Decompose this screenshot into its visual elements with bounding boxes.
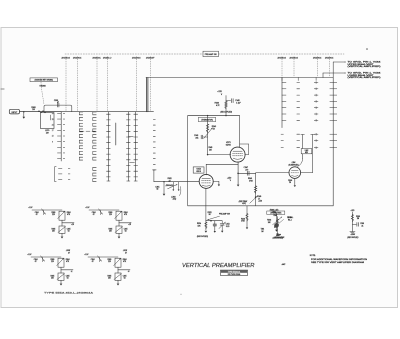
svg-text:2N3904: 2N3904 xyxy=(61,57,70,59)
pentode V353 6DK6 xyxy=(199,174,213,188)
svg-text:90: 90 xyxy=(209,214,211,216)
switch wafer dropper 2N3904 (dashed wire) xyxy=(136,57,138,111)
svg-text:220: 220 xyxy=(51,261,54,263)
delay line second half left rail xyxy=(281,78,283,128)
svg-text:NOTE:: NOTE: xyxy=(310,255,316,257)
neon lamp B386 xyxy=(274,223,279,228)
capacitor C361 to ground xyxy=(163,181,164,182)
node grid junction xyxy=(207,154,209,156)
shield box left edge xyxy=(187,116,189,206)
edge mark xyxy=(1,88,4,90)
ground V353 beam plates xyxy=(213,180,219,182)
ground at input xyxy=(23,112,25,117)
wire collector bus Q321 xyxy=(31,256,61,258)
triode V363 xyxy=(289,167,301,179)
title block box xyxy=(220,270,247,275)
svg-text:PRE-AMP SW: PRE-AMP SW xyxy=(205,53,217,56)
wire cathode node xyxy=(206,220,222,222)
ground decoupler xyxy=(350,231,355,233)
svg-text:2N3904: 2N3904 xyxy=(325,57,334,59)
svg-text:2N3904F: 2N3904F xyxy=(146,57,155,59)
svg-text:62: 62 xyxy=(125,231,127,233)
output arrow to lower beam amplifier xyxy=(323,72,345,74)
wire V363 grid feed xyxy=(256,172,289,174)
wire interconnect top xyxy=(146,77,333,79)
node plate feed xyxy=(188,115,240,117)
wire emitter node Q331 xyxy=(117,267,119,273)
wire V353 cathode xyxy=(205,188,207,220)
svg-text:220: 220 xyxy=(108,261,111,263)
svg-text:47: 47 xyxy=(125,252,127,255)
svg-text:555 THRU R999: 555 THRU R999 xyxy=(228,274,241,276)
delay line rail stubs xyxy=(281,78,283,81)
svg-text:2N3904: 2N3904 xyxy=(277,57,286,59)
svg-text:47: 47 xyxy=(68,252,70,255)
svg-text:47: 47 xyxy=(169,180,171,182)
svg-text:R305: R305 xyxy=(108,228,112,230)
node input junction xyxy=(23,111,25,113)
capacitor C388 xyxy=(352,223,356,225)
wire contact column to grid line xyxy=(152,169,156,171)
wire neon feed xyxy=(276,213,278,223)
resistor R343 thermistor xyxy=(207,116,209,155)
wire collector bus Q331 xyxy=(88,256,118,258)
svg-text:2N3904: 2N3904 xyxy=(289,57,298,59)
switch wafer dropper 2N3904 (dashed wire) xyxy=(329,57,331,78)
delay line rail column 4 xyxy=(107,112,109,181)
svg-text:R303: R303 xyxy=(108,212,112,214)
diode Q331 xyxy=(98,256,102,261)
svg-text:82: 82 xyxy=(156,189,158,191)
resistor emitter Q321 xyxy=(58,273,64,280)
svg-text:R347: R347 xyxy=(273,215,277,217)
svg-text:(VERTICAL AMPLIFIER): (VERTICAL AMPLIFIER) xyxy=(348,76,382,79)
svg-text:62: 62 xyxy=(67,278,69,280)
svg-text:5-25: 5-25 xyxy=(226,226,229,228)
wire V363 plate to rail xyxy=(301,172,313,174)
diode Q311 xyxy=(99,209,103,214)
delay line second half right rail xyxy=(332,78,334,206)
speck xyxy=(366,48,368,50)
svg-text:62: 62 xyxy=(124,278,126,280)
resistor R349 peaking xyxy=(255,173,257,206)
resistor R354 xyxy=(205,221,207,230)
svg-text:9: 9 xyxy=(52,141,53,143)
svg-text:(L363: (L363 xyxy=(171,196,175,198)
resistor R388 xyxy=(351,212,353,231)
diode Q321 xyxy=(41,256,45,261)
node output junction xyxy=(237,173,239,175)
svg-text:PRE-AMP SW: PRE-AMP SW xyxy=(219,213,230,216)
svg-text:INPUT: INPUT xyxy=(12,112,19,114)
svg-text:VERTICAL PREAMPLIFIER: VERTICAL PREAMPLIFIER xyxy=(182,263,255,269)
svg-text:C304: C304 xyxy=(35,212,39,214)
coil L362 termination xyxy=(302,135,304,159)
wire to V373 plate xyxy=(239,116,241,148)
svg-text:(DECOUPLED): (DECOUPLED) xyxy=(220,112,232,114)
svg-text:B386: B386 xyxy=(288,217,292,219)
svg-text:C304: C304 xyxy=(91,259,95,261)
svg-text:V353: V353 xyxy=(196,169,200,171)
resistor R346 xyxy=(225,101,228,108)
capacitor C353 electrolytic xyxy=(214,221,216,224)
transistor Q331 xyxy=(115,258,121,267)
svg-text:R304: R304 xyxy=(66,259,70,261)
wire shield pair xyxy=(145,78,147,112)
delay line switch contact dots xyxy=(153,119,155,121)
svg-text:+225: +225 xyxy=(350,210,354,212)
svg-text:R349: R349 xyxy=(248,178,252,180)
switch wafer dropper 2N3904F (dashed wire) xyxy=(150,57,152,111)
node cathode junction xyxy=(210,220,212,222)
svg-text:6DK6: 6DK6 xyxy=(196,171,201,173)
svg-text:R304: R304 xyxy=(124,212,128,214)
wire thermistor to V373 grid xyxy=(208,154,231,156)
svg-text:+10: +10 xyxy=(71,224,74,226)
svg-text:R305: R305 xyxy=(107,275,111,277)
resistor emitter Q311 xyxy=(116,226,122,233)
svg-text:2N3904: 2N3904 xyxy=(313,57,322,59)
svg-text:C388: C388 xyxy=(360,223,364,225)
capacitor C368 bypass loop xyxy=(44,105,72,112)
svg-text:T344: T344 xyxy=(261,229,265,231)
switch wafer dropper 2N3904 (dashed wire) xyxy=(293,57,295,78)
svg-text:.001: .001 xyxy=(195,138,198,140)
capacitor stubs to ground xyxy=(172,182,174,190)
shield box bottom edge xyxy=(188,205,334,207)
svg-text:(R386 2.2K): (R386 2.2K) xyxy=(270,209,279,211)
ground Q321 xyxy=(60,280,62,283)
svg-text:R305: R305 xyxy=(50,275,54,277)
svg-text:220: 220 xyxy=(109,214,112,216)
delay line LC column 2 xyxy=(79,111,82,113)
diode Q301 xyxy=(42,209,46,214)
svg-text:21: 21 xyxy=(52,124,54,126)
wire plate supply xyxy=(225,96,227,116)
svg-text:2N3904C: 2N3904C xyxy=(92,57,102,59)
svg-text:47: 47 xyxy=(92,261,94,263)
wire input xyxy=(20,111,62,113)
label box V353 xyxy=(193,167,204,173)
svg-text:.01: .01 xyxy=(361,225,363,227)
ganged-with label box xyxy=(30,78,58,82)
svg-text:2N3904: 2N3904 xyxy=(73,57,82,59)
delay line second half column 3 xyxy=(314,82,318,84)
capacitor C343 xyxy=(203,136,207,138)
wire V373 screen loop xyxy=(245,154,249,156)
svg-text:(DECOUPLED): (DECOUPLED) xyxy=(347,237,358,239)
svg-text:4.7µF: 4.7µF xyxy=(236,103,240,105)
wire V353 grid input xyxy=(154,181,199,183)
capacitor C347 xyxy=(246,171,248,175)
delay line rail column 5 xyxy=(127,112,129,181)
svg-text:+10: +10 xyxy=(128,224,131,226)
svg-text:R304: R304 xyxy=(123,259,127,261)
svg-text:C304: C304 xyxy=(34,259,38,261)
delay line LC column 3 xyxy=(93,111,96,113)
svg-text:SW360: SW360 xyxy=(39,86,45,88)
ground Q311 xyxy=(118,233,120,236)
pentode V373 6DK6 xyxy=(230,147,245,162)
capacitor C345 decoupling xyxy=(226,100,231,102)
svg-text:47: 47 xyxy=(57,102,59,104)
svg-text:C305: C305 xyxy=(124,228,128,230)
wire collector bus Q311 xyxy=(89,209,119,211)
delay line left rail bottom bracket xyxy=(55,167,57,182)
svg-text:R388: R388 xyxy=(356,216,360,218)
switch wafer dropper 2N3904 (dashed wire) xyxy=(65,57,67,111)
input terminal xyxy=(9,109,19,114)
svg-text:R348: R348 xyxy=(241,218,245,220)
svg-text:R303: R303 xyxy=(51,212,55,214)
thermistor R347 label box xyxy=(267,211,285,214)
svg-text:6DK6: 6DK6 xyxy=(226,145,232,147)
svg-text:+150: +150 xyxy=(258,200,262,202)
svg-text:220: 220 xyxy=(52,214,55,216)
svg-text:25: 25 xyxy=(52,119,54,121)
svg-text:(VERTICAL AMPLIFIER): (VERTICAL AMPLIFIER) xyxy=(348,65,382,68)
output arrow to upper beam amplifier xyxy=(333,61,345,63)
potentiometer R347 dc bal xyxy=(277,217,279,233)
svg-text:C305: C305 xyxy=(66,275,70,277)
resistor emitter Q301 xyxy=(59,226,65,233)
svg-text:(M-DERIVED): (M-DERIVED) xyxy=(288,164,298,166)
svg-text:SEE TYPE 555 VERT AMPLIFIER DI: SEE TYPE 555 VERT AMPLIFIER DIAGRAM xyxy=(311,261,365,264)
svg-text:C349: C349 xyxy=(257,196,261,198)
trimmer capacitor C352 xyxy=(221,221,223,224)
delay line coupling row B xyxy=(129,136,133,138)
svg-text:L362: L362 xyxy=(305,150,309,152)
svg-text:+1: +1 xyxy=(71,271,73,273)
ground neon xyxy=(276,228,278,230)
svg-text:R366: R366 xyxy=(288,180,292,182)
svg-text:C304: C304 xyxy=(92,212,96,214)
ground Q331 xyxy=(117,280,119,283)
svg-text:17: 17 xyxy=(52,130,54,132)
transistor Q301 xyxy=(59,211,65,220)
delay line rail column 6 xyxy=(135,112,137,181)
svg-text:13: 13 xyxy=(52,136,54,138)
wire emitter node Q321 xyxy=(60,267,62,273)
potentiometer R360 adjust xyxy=(168,184,178,188)
node peaking junction xyxy=(255,196,257,198)
svg-text:TYPE 555A/21A: TYPE 555A/21A xyxy=(228,270,241,273)
delay line second half column 2 xyxy=(297,82,300,84)
svg-text:47: 47 xyxy=(35,261,37,263)
svg-text:(DECOUPLED): (DECOUPLED) xyxy=(197,236,208,238)
switch wafer dropper 2N39LO (dashed wire) xyxy=(107,57,109,111)
wire emitter node Q311 xyxy=(118,220,120,226)
delay line left rail with taps xyxy=(60,112,62,161)
svg-text:R304: R304 xyxy=(67,212,71,214)
svg-text:+5: +5 xyxy=(128,271,130,273)
resistor emitter Q331 xyxy=(115,273,121,280)
svg-text:R303: R303 xyxy=(107,259,111,261)
svg-text:(THERMISTOR): (THERMISTOR) xyxy=(201,119,213,121)
resistor R366 cathode xyxy=(294,178,296,184)
node dc bal junction xyxy=(274,226,276,228)
transistor Q321 xyxy=(58,258,64,267)
switch wafer dropper 2N3904 (dashed wire) xyxy=(77,57,79,111)
svg-text:C305: C305 xyxy=(123,275,127,277)
svg-text:C305: C305 xyxy=(67,228,71,230)
shield box top stub xyxy=(188,115,240,117)
potentiometer peaking adjust xyxy=(250,196,258,204)
svg-text:FOR ADDITIONAL WAVEFORM INFORM: FOR ADDITIONAL WAVEFORM INFORMATION xyxy=(311,258,368,261)
delay line inductor segment xyxy=(115,123,117,145)
ganged switch bus (dashed) xyxy=(65,53,344,55)
wire cathode follower output xyxy=(238,172,256,174)
ground Q301 xyxy=(61,233,63,236)
ganged linkage (dashed) xyxy=(41,82,44,105)
ground dc bal xyxy=(276,233,278,235)
svg-text:R305: R305 xyxy=(51,228,55,230)
svg-text:TYPE 555A 453-L-2N3904A: TYPE 555A 453-L-2N3904A xyxy=(44,292,94,295)
svg-text:56: 56 xyxy=(289,182,291,184)
svg-text:R303: R303 xyxy=(50,259,54,261)
switch wafer dropper 2N3904C (dashed wire) xyxy=(96,57,98,111)
svg-text:24?: 24? xyxy=(46,132,49,134)
svg-text:47: 47 xyxy=(93,214,95,216)
wire collector bus Q301 xyxy=(32,209,62,211)
coil L363 adjust label xyxy=(180,187,181,196)
transistor Q311 xyxy=(116,211,122,220)
wire main input bus xyxy=(20,111,154,113)
wire V353 plate to V373 cathode xyxy=(205,164,207,175)
svg-text:2N3904: 2N3904 xyxy=(132,57,141,59)
switch label box SW360 xyxy=(203,51,219,56)
svg-text:270: 270 xyxy=(245,169,248,171)
switch wafer dropper 2N3904 (dashed wire) xyxy=(317,57,319,78)
svg-text:29: 29 xyxy=(52,113,54,115)
wire V373 cathode to ground xyxy=(237,162,239,185)
switch wafer dropper 2N3904 (dashed wire) xyxy=(281,57,283,78)
svg-text:R383: R383 xyxy=(267,220,271,222)
svg-text:62: 62 xyxy=(68,231,70,233)
thermistor label xyxy=(198,117,215,121)
node feed junctions xyxy=(225,115,226,116)
svg-text:2N39LO: 2N39LO xyxy=(103,57,113,59)
svg-text:R345: R345 xyxy=(208,147,212,149)
delay line coupling row A xyxy=(80,130,84,132)
relay L370 box xyxy=(41,113,55,129)
svg-text:C343: C343 xyxy=(194,135,198,137)
resistor R348 xyxy=(246,206,248,227)
wire emitter node Q301 xyxy=(61,220,63,226)
svg-text:47: 47 xyxy=(36,214,38,216)
